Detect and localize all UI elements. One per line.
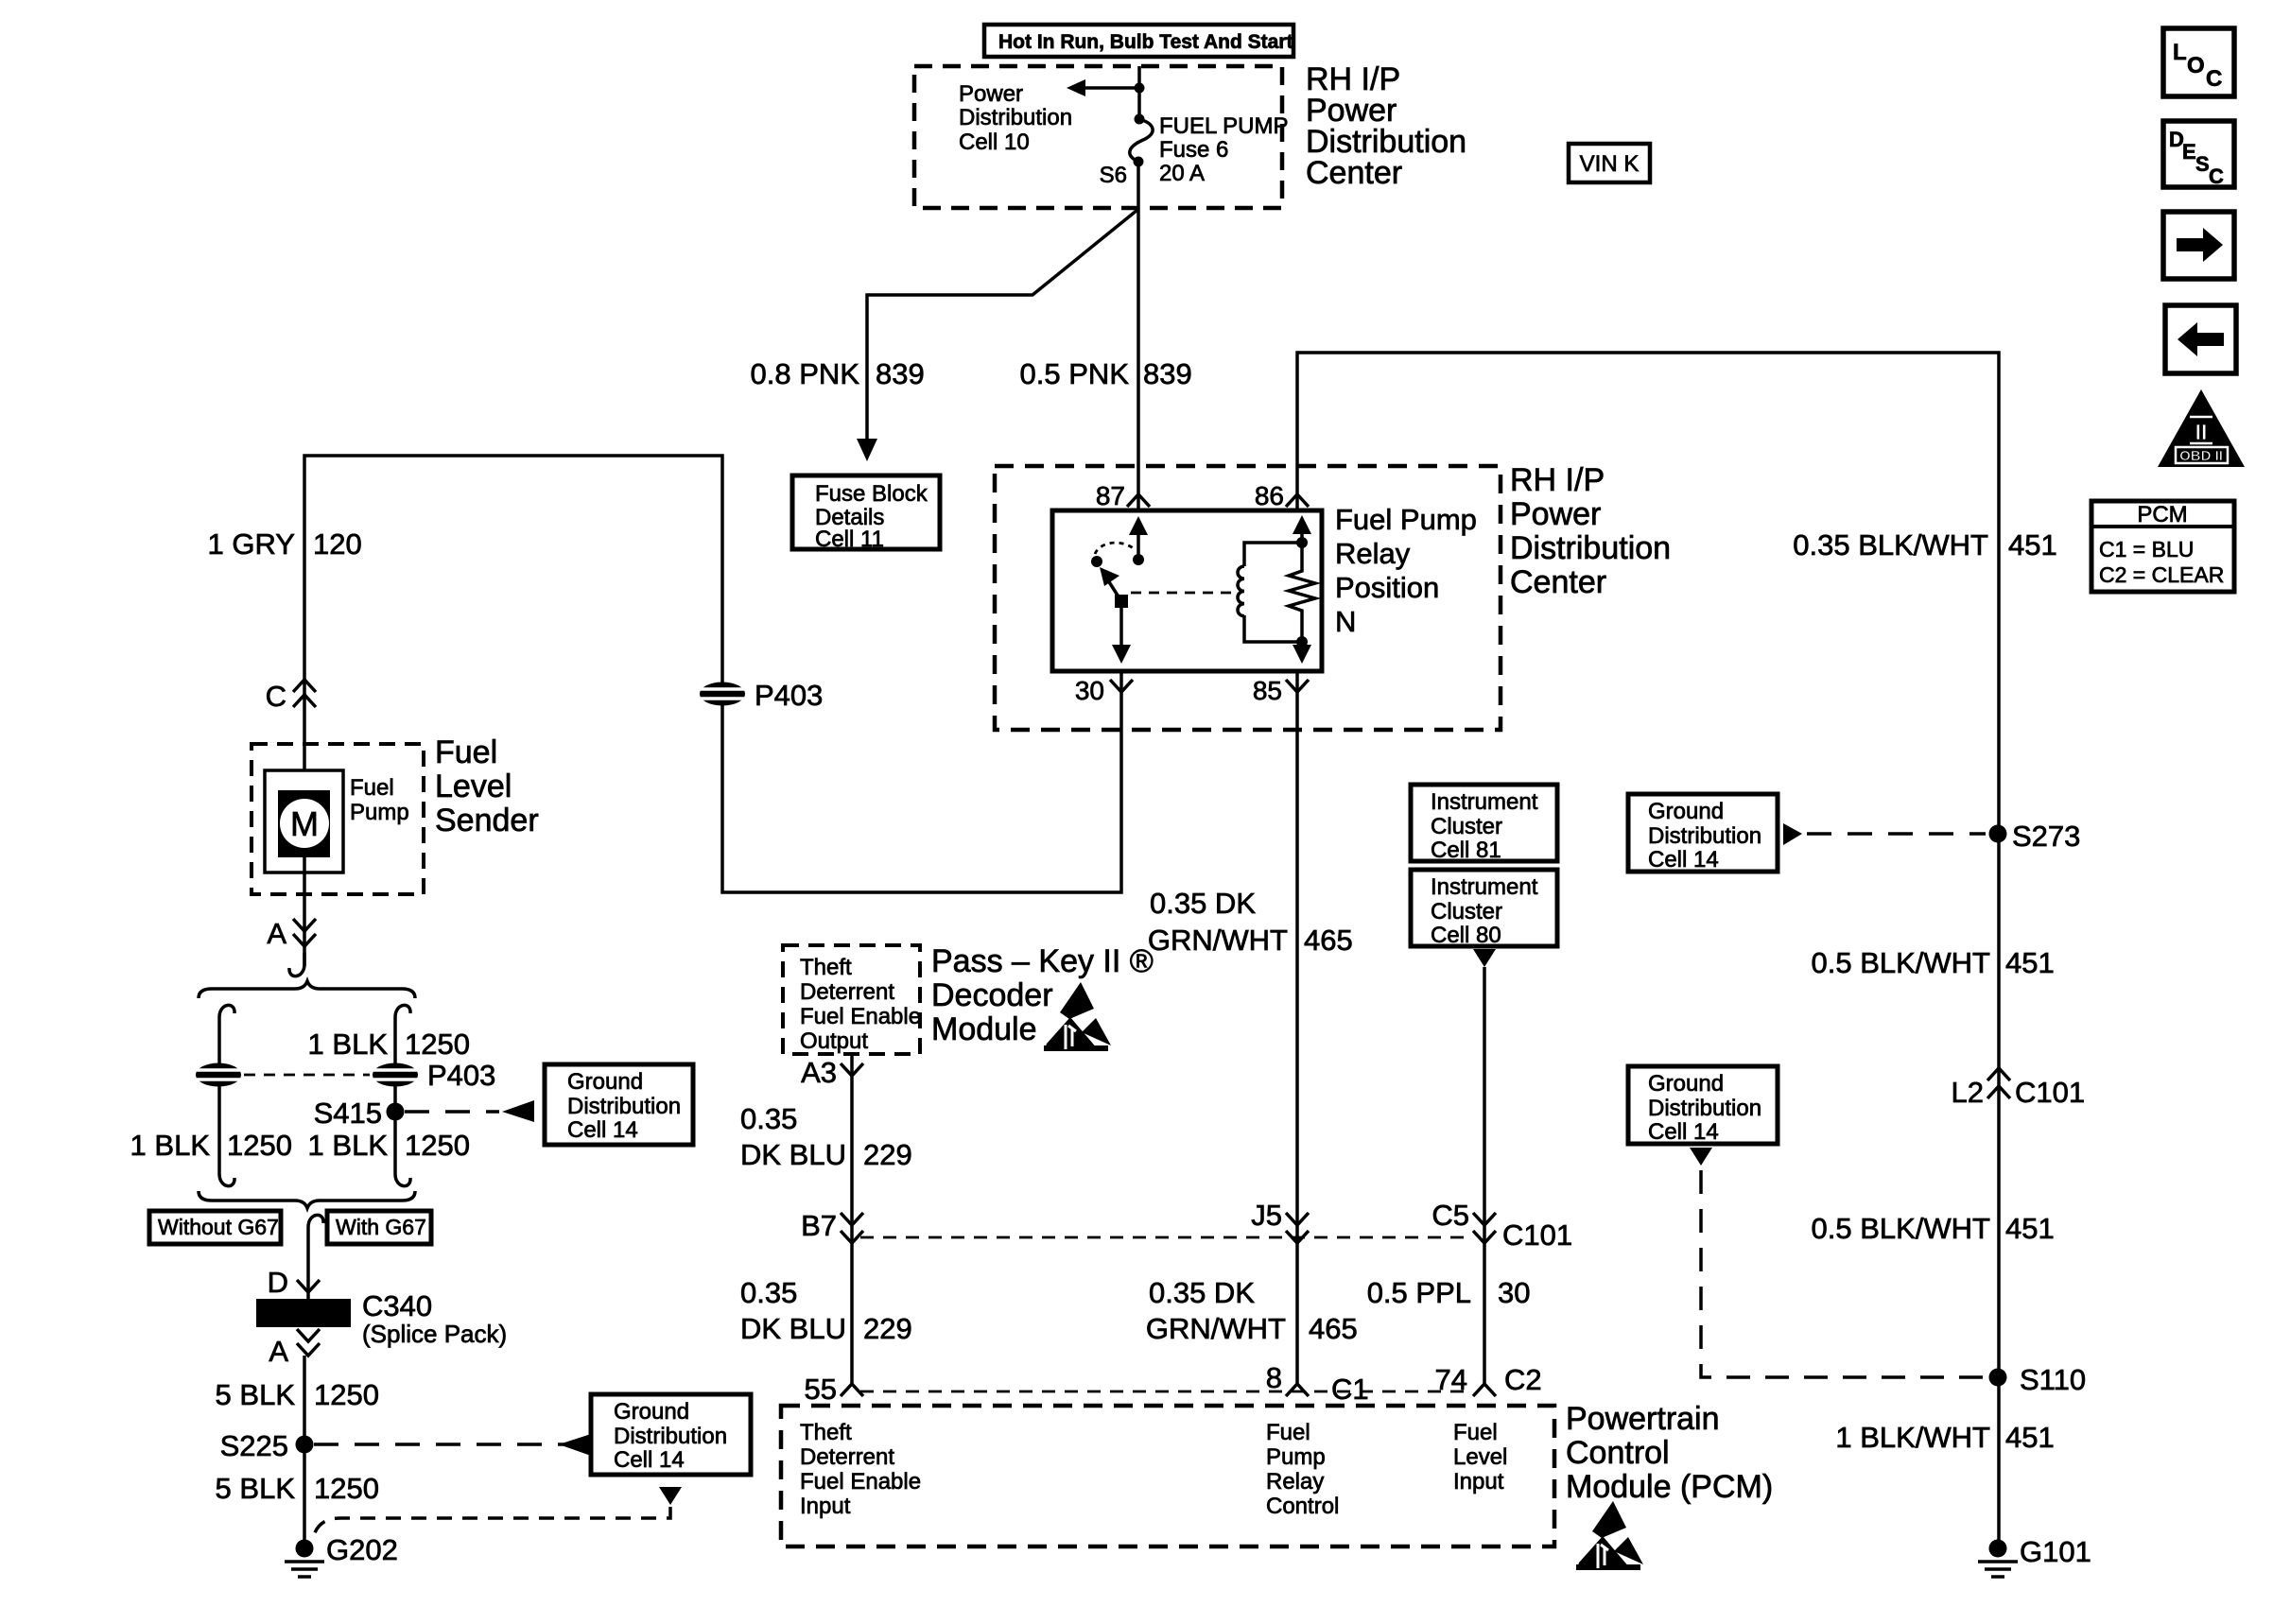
- svg-text:P403: P403: [427, 1059, 495, 1092]
- wire label 0.5 PPL 30: [1367, 1276, 1531, 1309]
- svg-text:Cell 81: Cell 81: [1431, 838, 1501, 863]
- dashed reference line S225 to ground distribution: [314, 1443, 565, 1446]
- label box Instrument Cluster Cell 80: [1411, 870, 1557, 948]
- svg-text:Fuel Enable: Fuel Enable: [800, 1469, 921, 1494]
- resistor (parallel with coil): [1289, 543, 1315, 642]
- svg-text:839: 839: [876, 357, 925, 390]
- svg-text:Level: Level: [435, 769, 512, 804]
- wire label 0.35 DK GRN/WHT 465 (lower): [1146, 1276, 1358, 1345]
- svg-text:55: 55: [805, 1373, 837, 1406]
- svg-text:451: 451: [2005, 1421, 2055, 1454]
- reference arrow below box (G202): [659, 1487, 682, 1505]
- ground G101: [1978, 1535, 2091, 1577]
- svg-text:74: 74: [1435, 1363, 1467, 1396]
- svg-text:Fuse 6: Fuse 6: [1159, 137, 1228, 163]
- motor M fuel pump: [265, 770, 343, 872]
- svg-text:0.5 PPL: 0.5 PPL: [1367, 1276, 1471, 1309]
- svg-text:Position: Position: [1335, 571, 1439, 604]
- svg-text:Decoder: Decoder: [931, 977, 1053, 1013]
- relay actuation dashed link: [1131, 592, 1231, 595]
- svg-text:Input: Input: [1453, 1469, 1504, 1494]
- node junction dot at arrow: [1135, 83, 1145, 94]
- label Fuel Pump Relay Position N: [1335, 503, 1477, 638]
- dashed reference line to S110: [1701, 1170, 1986, 1377]
- dashed reference line S415 to ground distribution: [405, 1110, 499, 1114]
- dashed line between grommets: [244, 1074, 370, 1077]
- wire A3 to PCM pin 55 (theft deterrent fuel enable): [850, 1054, 854, 1384]
- svg-text:S110: S110: [2020, 1363, 2086, 1396]
- brace lower (splice merge): [199, 1191, 415, 1208]
- svg-text:Cluster: Cluster: [1431, 814, 1502, 839]
- svg-text:451: 451: [2005, 946, 2055, 979]
- connector grommet right P403: [373, 1063, 418, 1087]
- connector pin J5 chevrons: [1286, 1213, 1309, 1243]
- relay switch fixed contact: [1091, 556, 1102, 567]
- svg-text:VIN K: VIN K: [1580, 151, 1640, 177]
- svg-text:Instrument: Instrument: [1431, 789, 1538, 815]
- wire pin 30 to P403 and fuel pump: [304, 456, 1121, 892]
- pin 30 chevron: [1110, 680, 1133, 692]
- svg-text:0.35 BLK/WHT: 0.35 BLK/WHT: [1793, 528, 1988, 561]
- svg-text:Ground: Ground: [1648, 1071, 1724, 1097]
- svg-text:C1: C1: [1331, 1373, 1369, 1406]
- svg-text:C: C: [2209, 164, 2224, 188]
- svg-text:Deterrent: Deterrent: [800, 979, 894, 1005]
- svg-text:L2: L2: [1952, 1076, 1984, 1109]
- dashed box Powertrain Control Module PCM: [781, 1406, 1554, 1546]
- svg-text:Powertrain: Powertrain: [1566, 1401, 1720, 1437]
- svg-text:Cell 80: Cell 80: [1431, 923, 1501, 948]
- svg-text:S225: S225: [220, 1429, 288, 1462]
- wire C340 to G202: [303, 1356, 306, 1548]
- ESD symbol (decoder module): [1044, 982, 1111, 1051]
- connector pin C chevrons (fuel level sender): [293, 680, 316, 707]
- svg-text:Relay: Relay: [1266, 1469, 1324, 1494]
- dashed box RH I/P Power Distribution Center (relay): [995, 466, 1501, 730]
- label Theft Deterrent Fuel Enable Input: [800, 1420, 921, 1519]
- wire pin 86 to right bus 0.35 BLK/WHT 451: [1297, 353, 1999, 1548]
- dashed connector line B7 J5 C5: [860, 1236, 1471, 1239]
- svg-text:C2 = CLEAR: C2 = CLEAR: [2099, 562, 2224, 587]
- pin 55 chevron: [841, 1384, 863, 1396]
- wire label 1 GRY 120: [208, 527, 362, 561]
- reference arrow to S273: [1783, 823, 1802, 845]
- svg-text:87: 87: [1096, 481, 1125, 510]
- svg-text:Center: Center: [1510, 564, 1606, 600]
- label box Ground Distribution Cell 14 (S415): [545, 1064, 693, 1145]
- label box Ground Distribution Cell 14 (S273): [1628, 794, 1778, 872]
- wire label 0.35 BLK/WHT 451: [1793, 528, 2056, 561]
- svg-text:PCM: PCM: [2137, 502, 2187, 527]
- svg-text:Cell 14: Cell 14: [1648, 1119, 1719, 1145]
- wire blade to pin 30: [1112, 608, 1131, 664]
- wire hook at splice branch: [289, 953, 304, 976]
- wire left ground branch upper: [219, 1005, 234, 1064]
- reference arrow (S415): [502, 1100, 534, 1122]
- svg-text:Pump: Pump: [1266, 1444, 1326, 1470]
- wire label 0.5 PNK 839: [1020, 357, 1192, 390]
- wire motor to pin A: [303, 857, 306, 966]
- pin 87 chevron: [1127, 494, 1150, 507]
- svg-text:A: A: [267, 917, 286, 950]
- wire pin 85 to J5 and PCM C1 (fuel pump relay control): [1295, 671, 1299, 1384]
- svg-text:FUEL PUMP: FUEL PUMP: [1159, 113, 1288, 139]
- label Powertrain Control Module (PCM): [1566, 1401, 1773, 1505]
- svg-text:30: 30: [1075, 676, 1104, 705]
- svg-text:With G67: With G67: [336, 1215, 426, 1239]
- svg-text:E: E: [2182, 140, 2196, 164]
- svg-text:Cell 10: Cell 10: [959, 130, 1030, 155]
- relay switch dashed arc: [1095, 543, 1136, 554]
- svg-text:G202: G202: [326, 1533, 398, 1566]
- ground G202: [285, 1533, 398, 1577]
- node coil bottom: [1296, 636, 1308, 648]
- svg-text:8: 8: [1266, 1361, 1282, 1394]
- node S273 splice: [1989, 820, 2081, 853]
- svg-text:1250: 1250: [227, 1129, 292, 1162]
- svg-text:N: N: [1335, 605, 1356, 638]
- wire fuse feed vertical S6: [1137, 66, 1141, 116]
- svg-text:GRN/WHT: GRN/WHT: [1148, 924, 1288, 957]
- wire coil bottom to pin 85: [1293, 642, 1311, 664]
- relay K Fuel Pump Relay inner box: [1052, 510, 1322, 671]
- svg-text:1 BLK: 1 BLK: [130, 1129, 211, 1162]
- wire label 1 BLK 1250 (right upper): [308, 1028, 470, 1061]
- svg-text:1250: 1250: [405, 1028, 470, 1061]
- reference arrow below box (S110): [1690, 1148, 1712, 1166]
- reference arrow below cluster box: [1473, 949, 1496, 967]
- svg-text:Fuel Pump: Fuel Pump: [1335, 503, 1477, 536]
- svg-text:(Splice Pack): (Splice Pack): [362, 1320, 507, 1348]
- dashed box RH I/P Power Distribution Center (fuse block, Cell 10): [914, 66, 1282, 208]
- label box Fuse Block Details Cell 11: [792, 475, 940, 552]
- connector C340 splice pack bar: [256, 1299, 351, 1327]
- label RH I/P Power Distribution Center (relay): [1510, 462, 1671, 600]
- svg-text:A3: A3: [801, 1056, 837, 1089]
- wire label 1 BLK/WHT 451: [1835, 1421, 2054, 1454]
- label Fuel Pump Relay Control: [1266, 1420, 1339, 1519]
- dashed reference line to S273: [1807, 832, 1986, 836]
- svg-text:Distribution: Distribution: [959, 105, 1072, 130]
- svg-text:Fuel Enable: Fuel Enable: [800, 1004, 921, 1029]
- icon box LOC: [2163, 28, 2234, 96]
- relay switch blade (movable arm): [1100, 567, 1128, 608]
- svg-text:A: A: [269, 1335, 288, 1368]
- svg-text:Fuel: Fuel: [1266, 1420, 1310, 1445]
- label RH I/P Power Distribution Center (top): [1306, 61, 1466, 191]
- dashed box Theft Deterrent Fuel Enable Output: [783, 945, 921, 1054]
- wire left ground branch lower: [219, 1085, 234, 1186]
- svg-text:0.8 PNK: 0.8 PNK: [751, 357, 860, 390]
- pin 85 chevron: [1286, 680, 1309, 692]
- node S110 splice: [1989, 1363, 2087, 1396]
- node S415 splice: [314, 1097, 405, 1130]
- svg-text:85: 85: [1253, 676, 1282, 705]
- svg-text:S415: S415: [314, 1097, 382, 1130]
- legend box PCM connectors: [2091, 501, 2234, 592]
- svg-text:1 BLK/WHT: 1 BLK/WHT: [1835, 1421, 1990, 1454]
- relay coil: [1238, 543, 1302, 642]
- label Fuel Level Input: [1453, 1420, 1507, 1494]
- svg-text:0.5 PNK: 0.5 PNK: [1020, 357, 1130, 390]
- wire 0.8 PNK 839 branch to fuse block details: [857, 210, 1137, 461]
- svg-text:Pump: Pump: [350, 800, 409, 825]
- connector C101 pin L2 chevrons: [1987, 1068, 2010, 1098]
- title box "Hot In Run, Bulb Test And Start": [984, 25, 1293, 57]
- VIN K box: [1569, 144, 1650, 182]
- pin 74 chevron C2: [1473, 1384, 1496, 1396]
- label Pass-Key II Decoder Module: [931, 943, 1154, 1047]
- connector P403 (engine harness): [700, 682, 745, 706]
- wire label 0.8 PNK 839: [751, 357, 925, 390]
- value label FUEL PUMP Fuse 6 20 A: [1159, 113, 1288, 186]
- label Fuel Pump: [350, 775, 409, 825]
- svg-text:Cluster: Cluster: [1431, 899, 1502, 924]
- svg-text:Theft: Theft: [800, 955, 852, 980]
- svg-text:Distribution: Distribution: [614, 1424, 727, 1449]
- pin 8 chevron C1: [1286, 1384, 1309, 1396]
- svg-text:1250: 1250: [314, 1378, 379, 1411]
- svg-text:S273: S273: [2012, 820, 2080, 853]
- pin D chevron: [297, 1280, 320, 1292]
- wire label 1 BLK 1250 (left): [130, 1129, 292, 1162]
- svg-text:Sender: Sender: [435, 803, 539, 838]
- connector C340 label: [362, 1289, 507, 1348]
- svg-text:Ground: Ground: [567, 1069, 643, 1095]
- svg-text:0.35 DK: 0.35 DK: [1150, 887, 1256, 920]
- icon box arrow left: [2165, 305, 2236, 373]
- svg-text:451: 451: [2005, 1212, 2055, 1245]
- svg-text:C2: C2: [1504, 1363, 1542, 1396]
- label box Ground Distribution Cell 14 (S110): [1628, 1066, 1778, 1145]
- fuse FUEL PUMP Fuse 6 20 A: [1130, 114, 1153, 167]
- connector pin B7 chevrons: [841, 1213, 863, 1243]
- svg-text:465: 465: [1309, 1312, 1358, 1345]
- wire right ground branch upper (S415): [395, 1005, 410, 1064]
- svg-text:Theft: Theft: [800, 1420, 852, 1445]
- pin 86 chevron: [1286, 494, 1309, 507]
- svg-text:Fuel: Fuel: [435, 734, 497, 770]
- node S225 splice: [220, 1429, 314, 1462]
- pin A3 chevron: [841, 1063, 863, 1076]
- label box Ground Distribution Cell 14 (S225): [591, 1394, 751, 1475]
- svg-text:C: C: [2206, 66, 2222, 92]
- svg-text:1250: 1250: [314, 1472, 379, 1505]
- svg-text:451: 451: [2008, 528, 2057, 561]
- relay switch common from pin 87: [1129, 516, 1148, 565]
- svg-text:RH I/P: RH I/P: [1510, 462, 1605, 498]
- wire merge to connector D: [308, 1215, 323, 1299]
- svg-text:Fuel: Fuel: [350, 775, 394, 801]
- wire right ground branch lower: [395, 1085, 410, 1186]
- svg-text:Cell 14: Cell 14: [567, 1117, 638, 1143]
- wire label 0.35 DK BLU 229 (lower): [740, 1276, 912, 1345]
- svg-text:0.35: 0.35: [740, 1276, 797, 1309]
- ESD symbol (PCM): [1576, 1501, 1643, 1570]
- svg-text:II: II: [2195, 420, 2208, 444]
- svg-text:Hot In Run, Bulb Test And Star: Hot In Run, Bulb Test And Start: [998, 31, 1293, 53]
- icon box arrow right: [2163, 212, 2234, 279]
- dashed reference line to G202: [314, 1507, 670, 1535]
- wire label 5 BLK 1250 (upper): [216, 1378, 379, 1411]
- svg-text:Cell 14: Cell 14: [614, 1447, 685, 1473]
- wire label 0.35 DK BLU 229 (upper): [740, 1102, 912, 1171]
- svg-text:Distribution: Distribution: [1648, 1096, 1761, 1121]
- svg-text:0.35 DK: 0.35 DK: [1149, 1276, 1255, 1309]
- svg-text:86: 86: [1255, 481, 1284, 510]
- wire label 5 BLK 1250 (lower): [216, 1472, 379, 1505]
- svg-text:S6: S6: [1100, 163, 1127, 188]
- wire cluster to C5 and PCM C2 (fuel level signal): [1483, 967, 1486, 1384]
- svg-text:Fuel: Fuel: [1453, 1420, 1498, 1445]
- svg-text:C1 = BLU: C1 = BLU: [2099, 537, 2194, 561]
- svg-text:1 GRY: 1 GRY: [208, 527, 295, 561]
- svg-text:229: 229: [863, 1312, 912, 1345]
- svg-text:M: M: [290, 804, 319, 843]
- svg-text:Input: Input: [800, 1494, 851, 1519]
- svg-text:J5: J5: [1251, 1199, 1282, 1232]
- svg-text:O: O: [2187, 53, 2205, 78]
- svg-text:Distribution: Distribution: [1510, 530, 1671, 566]
- svg-text:0.5 BLK/WHT: 0.5 BLK/WHT: [1812, 1212, 1991, 1245]
- svg-text:Control: Control: [1566, 1435, 1670, 1471]
- pin A chevrons below C340: [297, 1329, 320, 1356]
- wire label 0.5 BLK/WHT 451 (upper): [1812, 946, 2055, 979]
- svg-text:Ground: Ground: [614, 1399, 689, 1425]
- svg-text:120: 120: [313, 527, 362, 561]
- svg-text:5 BLK: 5 BLK: [216, 1472, 296, 1505]
- svg-text:Control: Control: [1266, 1494, 1339, 1519]
- svg-text:L: L: [2173, 40, 2187, 65]
- svg-text:465: 465: [1304, 924, 1353, 957]
- svg-text:Distribution: Distribution: [1648, 823, 1761, 849]
- wire label 1 BLK 1250 (middle): [308, 1129, 470, 1162]
- svg-text:Pass – Key II ®: Pass – Key II ®: [931, 943, 1154, 979]
- wire S6 to relay pin 87: [1136, 162, 1140, 511]
- svg-text:Relay: Relay: [1335, 537, 1411, 570]
- svg-text:Power: Power: [959, 81, 1023, 107]
- svg-text:Cell 11: Cell 11: [815, 527, 884, 552]
- svg-text:1 BLK: 1 BLK: [308, 1129, 389, 1162]
- wire label 0.35 DK GRN/WHT 465 (upper): [1148, 887, 1353, 957]
- svg-text:30: 30: [1498, 1276, 1530, 1309]
- connector pin A chevrons: [293, 919, 316, 946]
- svg-text:Cell 14: Cell 14: [1648, 847, 1719, 872]
- dashed pcm top line 55 to C2: [860, 1391, 1471, 1393]
- svg-text:1 BLK: 1 BLK: [308, 1028, 389, 1061]
- option box Without G67: [149, 1211, 281, 1244]
- svg-text:Ground: Ground: [1648, 799, 1724, 824]
- svg-text:229: 229: [863, 1138, 912, 1171]
- wire coil top to pin 86: [1293, 515, 1311, 543]
- svg-text:1250: 1250: [405, 1129, 470, 1162]
- svg-text:P403: P403: [755, 679, 823, 712]
- icon OBD II triangle: [2158, 389, 2245, 467]
- option box With G67: [327, 1211, 431, 1244]
- svg-text:0.5 BLK/WHT: 0.5 BLK/WHT: [1812, 946, 1991, 979]
- svg-text:Center: Center: [1306, 155, 1402, 191]
- svg-text:D: D: [268, 1266, 288, 1299]
- dashed box Fuel Level Sender: [252, 744, 424, 894]
- node coil top: [1296, 537, 1308, 548]
- svg-text:C101: C101: [1502, 1218, 1572, 1252]
- svg-text:Output: Output: [800, 1028, 868, 1054]
- svg-text:Module: Module: [931, 1011, 1037, 1047]
- svg-text:B7: B7: [801, 1209, 837, 1242]
- svg-text:C340: C340: [362, 1289, 432, 1322]
- svg-text:0.35: 0.35: [740, 1102, 797, 1135]
- wire arrow to power distribution: [1067, 79, 1139, 96]
- wire label 0.5 BLK/WHT 451 (lower): [1812, 1212, 2055, 1245]
- svg-text:Module (PCM): Module (PCM): [1566, 1469, 1773, 1505]
- svg-text:Power: Power: [1510, 496, 1601, 532]
- connector pin C5 chevrons (C101): [1473, 1213, 1496, 1243]
- reference arrow (S225): [559, 1434, 591, 1456]
- label box Instrument Cluster Cell 81: [1411, 785, 1557, 863]
- svg-text:C5: C5: [1431, 1199, 1469, 1232]
- svg-text:C101: C101: [2015, 1076, 2085, 1109]
- svg-text:Instrument: Instrument: [1431, 874, 1538, 900]
- svg-text:OBD II: OBD II: [2179, 448, 2223, 464]
- brace upper (splice spread): [199, 981, 415, 998]
- svg-text:DK BLU: DK BLU: [740, 1138, 846, 1171]
- svg-text:20 A: 20 A: [1159, 161, 1205, 186]
- svg-text:C: C: [266, 680, 286, 713]
- label Fuel Level Sender: [435, 734, 539, 838]
- svg-text:Deterrent: Deterrent: [800, 1444, 894, 1470]
- svg-text:GRN/WHT: GRN/WHT: [1146, 1312, 1286, 1345]
- label Power Distribution Cell 10: [959, 81, 1072, 155]
- svg-text:Level: Level: [1453, 1444, 1507, 1470]
- svg-text:839: 839: [1143, 357, 1192, 390]
- connector grommet left: [196, 1063, 241, 1087]
- svg-text:G101: G101: [2020, 1535, 2091, 1568]
- svg-text:DK BLU: DK BLU: [740, 1312, 846, 1345]
- svg-text:Fuse Block: Fuse Block: [815, 481, 928, 507]
- svg-text:5 BLK: 5 BLK: [216, 1378, 296, 1411]
- svg-text:S: S: [2195, 152, 2210, 176]
- svg-text:Distribution: Distribution: [567, 1094, 681, 1119]
- icon box DESC: [2163, 121, 2234, 188]
- svg-text:Without G67: Without G67: [158, 1215, 279, 1239]
